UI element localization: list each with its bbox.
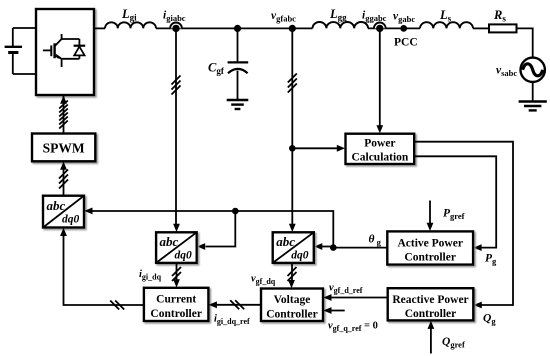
wire theta to right abc/dq0 (322, 246, 333, 248)
2-tick marker (172, 267, 181, 281)
svg-text:Active Power: Active Power (397, 237, 462, 249)
svg-text:Voltage: Voltage (274, 294, 311, 306)
wire: dc source left vertical upper (12, 28, 14, 47)
arrow into right abc/dq0 top (289, 224, 296, 232)
wire: power calc out2 to active power controller (414, 156, 496, 247)
svg-text:SPWM: SPWM (43, 140, 85, 155)
svg-text:Power: Power (364, 137, 395, 149)
wire: dc source left vertical lower (12, 53, 14, 75)
2-tick marker (288, 267, 297, 281)
wire: igiabc measurement line down to abc/dq0 (175, 28, 177, 224)
svg-text:Controller: Controller (150, 308, 202, 320)
wire: to power calculation left (292, 147, 337, 149)
svg-text:abc: abc (47, 198, 66, 213)
svg-text:dq0: dq0 (62, 213, 80, 225)
svg-text:Controller: Controller (405, 308, 457, 320)
wire: inverter output to Lgi (94, 27, 105, 29)
arrow into power calculation top (376, 125, 383, 133)
arrow up into SPWM bottom (60, 162, 67, 170)
3-phase marker on igiabc line (172, 76, 181, 95)
arrow into APC top (427, 223, 434, 231)
svg-text:PCC: PCC (394, 37, 418, 49)
2-tick marker (230, 300, 244, 309)
arrow up into RPC bottom (428, 321, 435, 329)
node vgfabc (289, 25, 296, 32)
arrow into right abc/dq0 right edge (314, 243, 322, 250)
inverter box (36, 9, 94, 95)
wire: vgf_q_ref stub (331, 310, 345, 312)
wire: vgf_dq from right abc/dq0 to voltage controller (291, 263, 293, 281)
battery DC source plates (5, 47, 22, 53)
abc-dq0 transform (middle) (156, 232, 197, 263)
svg-text:abc: abc (160, 234, 179, 249)
arrow into APC right edge (473, 244, 481, 251)
ground (Cgf) (227, 100, 249, 109)
node iggabc (374, 23, 386, 29)
arrow into power calculation left (337, 145, 345, 152)
wire: Cgf to ground (237, 71, 239, 101)
resistor Rs (489, 24, 517, 32)
arrow into middle abc/dq0 top (173, 224, 180, 232)
svg-text:Calculation: Calculation (351, 151, 408, 163)
wire: dc source top lead (13, 27, 36, 29)
power calculation box (346, 134, 415, 164)
arrow into current controller top (173, 279, 180, 287)
wire: Qgref input (430, 329, 432, 354)
arrow into CC right edge (209, 301, 217, 308)
wire: CC output feedback to left abc/dq0 (64, 236, 144, 305)
wire theta to middle abc/dq0 (206, 211, 236, 247)
svg-text:Controller: Controller (266, 309, 318, 321)
wire: Pgref input (429, 201, 431, 224)
wire: vgfabc measurement line down (291, 28, 293, 224)
dq0-abc transform (left) (43, 196, 84, 228)
wire: igi_dq from middle abc/dq0 to current controller (176, 263, 178, 280)
svg-text:Current: Current (156, 294, 196, 306)
arrow into VC right edge (323, 294, 331, 301)
node vgabc PCC (400, 25, 407, 32)
node theta mid branch (232, 208, 239, 215)
multi-phase marker (6 ticks) (59, 101, 68, 129)
wire: VC to CC (217, 304, 262, 306)
svg-text:dq0: dq0 (291, 249, 309, 261)
voltage controller box (261, 289, 323, 322)
arrow into voltage controller top (288, 280, 295, 288)
wire: Lgg to Ls (368, 27, 420, 29)
wire: vgf_d_ref RPC to VC (331, 297, 388, 299)
node vgf to power calculation (289, 145, 296, 152)
svg-text:Controller: Controller (404, 252, 456, 264)
ground (source) (519, 102, 547, 111)
wire: iggabc measurement line down to power calculation (379, 28, 381, 125)
arrow into left abc/dq0 right edge (84, 208, 92, 215)
node Cgf tap (234, 25, 241, 32)
svg-text:dq0: dq0 (175, 249, 193, 261)
2-tick marker (110, 301, 124, 310)
svg-text:abc: abc (276, 234, 295, 249)
arrow up into left abc/dq0 bottom (60, 228, 67, 236)
node igiabc (170, 22, 182, 28)
inductor Lgi (105, 22, 156, 28)
node theta branch (330, 244, 337, 251)
3-phase marker on vgfabc line (288, 74, 297, 93)
wire: Rs to corner and down to source (517, 28, 533, 57)
transistor Q1 (IGBT with antiparallel diode) (43, 34, 85, 67)
arrow into VC right edge (323, 307, 331, 314)
arrow into middle abc/dq0 right edge (197, 243, 205, 250)
SPWM gate bundle: inverter to SPWM (63, 95, 65, 134)
wire: abc/dq0 to SPWM (63, 170, 65, 196)
inductor Lgg (313, 22, 369, 28)
inductor Ls (420, 22, 473, 28)
wire: Ls to Rs (473, 27, 489, 29)
wire: dc source bottom lead (13, 73, 36, 75)
active power controller box (387, 231, 473, 264)
wire: power calc out1 to reactive power controller (414, 142, 513, 305)
svg-text:Reactive Power: Reactive Power (392, 294, 468, 306)
current controller box (144, 288, 209, 321)
wire: Lgi to Lgg (156, 27, 313, 29)
SPWM box (32, 134, 95, 162)
3-phase marker (59, 170, 68, 189)
capacitor Cgf (228, 62, 249, 73)
wire: source to ground (532, 82, 534, 102)
wire: Cgf branch (237, 28, 239, 62)
AC source vsabc (521, 58, 545, 82)
arrow into RPC right edge (474, 302, 482, 309)
reactive power controller box (388, 288, 474, 320)
abc-dq0 transform (right) (273, 232, 314, 263)
arrow up into inverter bottom (60, 96, 67, 104)
theta_g distribution wire (87, 211, 388, 248)
